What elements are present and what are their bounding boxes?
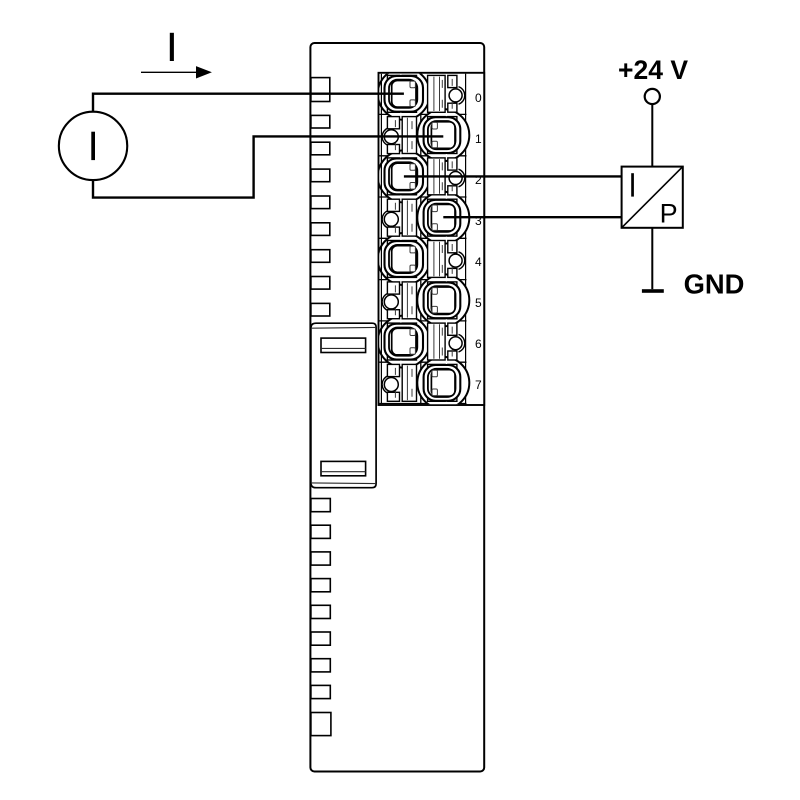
wire from terminal 2 to I/P converter (404, 175, 622, 177)
release slots right column row 3 (428, 323, 465, 360)
release slots left column row 2 (382, 282, 416, 319)
push-in terminal 7 (424, 365, 461, 401)
connector cell grid (379, 73, 467, 405)
svg-text:P: P (660, 198, 678, 228)
release slots right column row 1 (428, 158, 465, 195)
left column margin line (380, 74, 382, 404)
release slots left column row 3 (382, 364, 416, 401)
svg-text:2: 2 (475, 173, 482, 187)
push-in terminal 5 (424, 282, 461, 318)
push-in terminal 1 (424, 117, 461, 153)
terminal clamp circles (378, 68, 469, 409)
wire +24V to converter (651, 104, 653, 166)
svg-text:3: 3 (475, 214, 482, 228)
release slots right column row 0 (428, 75, 465, 112)
terminal connector block frame (379, 73, 485, 405)
svg-text:7: 7 (475, 378, 482, 392)
terminal numbers 0-7 (475, 91, 482, 392)
push-in terminal 2 (385, 159, 424, 195)
wire from current source + to terminal 0 (93, 94, 404, 113)
current direction arrow (141, 66, 212, 78)
svg-text:0: 0 (475, 91, 482, 105)
push-in terminal 3 (424, 200, 461, 236)
I/O module housing outline (310, 43, 484, 772)
push-in terminal 4 (385, 241, 424, 277)
I/P converter box (622, 167, 683, 229)
push-in terminal 0 (385, 76, 424, 112)
svg-text:1: 1 (475, 132, 482, 146)
svg-text:GND: GND (684, 269, 745, 300)
ground symbol (642, 289, 664, 293)
svg-text:4: 4 (475, 255, 482, 269)
push-in terminal 6 (385, 324, 424, 360)
svg-text:+24 V: +24 V (618, 55, 688, 85)
bus notches upper group (311, 78, 330, 316)
+24 V supply terminal (645, 89, 660, 104)
wire from terminal 3 to I/P converter (443, 216, 621, 218)
release slots right column row 2 (428, 241, 465, 278)
DIN-rail latch (311, 323, 376, 488)
current source symbol (59, 112, 127, 180)
actuation slot strips (387, 75, 457, 401)
wire converter to ground (651, 228, 653, 289)
svg-text:6: 6 (475, 337, 482, 351)
current direction label I (170, 33, 174, 61)
bus notches lower group (311, 499, 331, 736)
svg-text:5: 5 (475, 296, 482, 310)
release slots left column row 0 (382, 117, 416, 154)
release slots left column row 1 (382, 199, 416, 236)
wire from current source - to terminal 1 (93, 136, 443, 197)
